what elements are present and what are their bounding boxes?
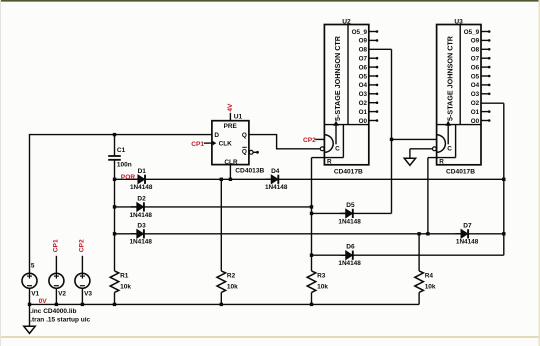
wire V2 bottom — [55, 288, 57, 304]
svg-text:R1: R1 — [120, 273, 129, 280]
U3 clock-enable bubble — [433, 147, 437, 151]
wire R2 vertical — [220, 179, 222, 271]
svg-text:O1: O1 — [359, 109, 368, 116]
junction at 503.8,233.8 — [502, 232, 505, 235]
svg-text:Q: Q — [242, 132, 247, 139]
svg-text:R2: R2 — [227, 273, 236, 280]
svg-text:D4: D4 — [271, 168, 280, 175]
U1 Qbar open end dot — [256, 151, 259, 154]
diode D5 1N4148 — [338, 202, 361, 225]
wire U3 O2 net vertical — [503, 103, 505, 255]
svg-text:O0: O0 — [359, 118, 368, 125]
svg-text:C1: C1 — [117, 147, 126, 154]
svg-text:R: R — [327, 159, 332, 166]
wire top rail to U1 D — [29, 134, 212, 136]
svg-text:CD4017B: CD4017B — [446, 168, 475, 175]
svg-text:1N4148: 1N4148 — [130, 239, 153, 246]
junction at 221.3,179.3 — [220, 178, 223, 181]
svg-text:1N4148: 1N4148 — [338, 218, 361, 225]
svg-text:O1: O1 — [471, 109, 480, 116]
wire U3 O2 pin — [481, 102, 504, 104]
junction at 311.5,206.9 — [310, 205, 313, 208]
svg-text:O9: O9 — [359, 38, 368, 45]
wire U1 Q to U2 clock-enable — [249, 135, 321, 149]
junction at 82.4,304.4 — [81, 303, 84, 306]
wire U2 R pin horizontal — [312, 157, 344, 159]
svg-text:R: R — [439, 159, 444, 166]
svg-text:10k: 10k — [317, 284, 328, 291]
svg-text:CLR: CLR — [224, 159, 238, 166]
net label CP1 at V2 — [52, 239, 59, 252]
junction at 230.4,179.3 — [229, 178, 232, 181]
svg-text:O2: O2 — [471, 100, 480, 107]
wire bottom rail — [30, 303, 420, 305]
svg-text:CD4013B: CD4013B — [235, 168, 264, 175]
junction at 427.9,233.8 — [426, 232, 429, 235]
svg-text:.inc CD4000.lib: .inc CD4000.lib — [30, 308, 76, 315]
junction at 114.5,134.6 — [113, 133, 116, 136]
svg-text:O4: O4 — [359, 82, 368, 89]
svg-text:0V: 0V — [39, 298, 48, 305]
svg-text:U2: U2 — [342, 18, 351, 25]
wire U3 clock-enable to ground — [410, 148, 433, 150]
svg-text:CP2: CP2 — [303, 137, 316, 144]
wire ground stub U3 — [409, 149, 411, 158]
wire U1 CLR stub — [229, 165, 231, 180]
op-amp substitute: D flip-flop U1 CD4013B — [212, 114, 265, 175]
wire U3 R pin horizontal — [428, 157, 456, 159]
wire U1 PRE stub — [229, 113, 231, 121]
svg-text:1N4148: 1N4148 — [130, 212, 153, 219]
svg-text:D6: D6 — [346, 244, 355, 251]
junction at 419.1,233.8 — [417, 232, 420, 235]
svg-text:Q: Q — [242, 149, 247, 156]
svg-text:1N4148: 1N4148 — [456, 239, 479, 246]
ground at V1 — [24, 326, 35, 333]
svg-text:O0: O0 — [471, 118, 480, 125]
svg-text:CP1: CP1 — [52, 239, 59, 252]
wire R2 bottom — [220, 292, 222, 304]
wire V1 bottom — [29, 288, 31, 304]
wire V3 bottom — [81, 288, 83, 304]
diode D7 1N4148 — [455, 222, 479, 245]
svg-text:1N4148: 1N4148 — [265, 184, 288, 191]
svg-text:5-STAGE JOHNSON CTR: 5-STAGE JOHNSON CTR — [335, 36, 342, 121]
wire CP2 label stub — [315, 138, 324, 140]
svg-text:CLK: CLK — [219, 141, 233, 148]
svg-text:O6: O6 — [471, 64, 480, 71]
svg-text:U1: U1 — [234, 114, 243, 121]
svg-text:V1: V1 — [31, 291, 39, 298]
junction at 114.5,179.3 — [113, 178, 116, 181]
svg-text:1N4148: 1N4148 — [130, 184, 153, 191]
diode D3 1N4148 — [130, 222, 153, 245]
svg-text:O8: O8 — [471, 47, 480, 54]
wire U3 R vertical — [427, 158, 429, 234]
wire O8 net to U3 clock — [392, 138, 437, 140]
svg-text:D1: D1 — [138, 168, 147, 175]
svg-text:D5: D5 — [346, 202, 355, 209]
wire ground drop — [29, 304, 31, 326]
U2 clock-enable bubble — [320, 147, 324, 151]
svg-text:O5: O5 — [359, 73, 368, 80]
svg-text:PRE: PRE — [224, 123, 238, 130]
wire R4 vertical — [418, 234, 420, 271]
svg-text:O7: O7 — [359, 56, 368, 63]
svg-text:D: D — [214, 132, 219, 139]
wire C1 top stub — [114, 135, 116, 156]
svg-text:O5: O5 — [471, 73, 480, 80]
diode D6 1N4148 — [338, 244, 361, 267]
svg-text:R4: R4 — [425, 273, 434, 280]
svg-text:C: C — [447, 145, 452, 152]
svg-text:CD4017B: CD4017B — [334, 168, 363, 175]
svg-text:10k: 10k — [227, 284, 238, 291]
counter U2 CD4017B — [324, 18, 378, 175]
wire R3 bottom — [311, 292, 313, 304]
junction at 114.5,206.9 — [113, 205, 116, 208]
svg-text:CP2: CP2 — [79, 239, 86, 252]
junction at 56.4,304.4 — [55, 303, 58, 306]
svg-text:CP1: CP1 — [191, 141, 204, 148]
svg-text:D7: D7 — [463, 222, 472, 229]
net label 4V at U1 PRE — [227, 103, 234, 112]
wire D6 row — [312, 254, 504, 256]
net label CP2 at V3 — [79, 239, 86, 252]
wire V2 top to CP1 label — [55, 256, 57, 273]
junction at 311.5,255.2 — [310, 254, 313, 257]
svg-text:10k: 10k — [120, 284, 131, 291]
resistor R4 10k — [415, 271, 436, 293]
wire U2 R to R3 vertical — [311, 158, 313, 271]
svg-text:O4: O4 — [471, 82, 480, 89]
resistor R3 10k — [307, 271, 328, 293]
svg-text:D2: D2 — [137, 195, 146, 202]
svg-text:POR: POR — [121, 174, 136, 181]
svg-text:O2: O2 — [359, 100, 368, 107]
svg-text:O9: O9 — [471, 38, 480, 45]
junction at 221.3,304.4 — [220, 303, 223, 306]
junction at 311.5,213.4 — [310, 212, 313, 215]
svg-text:O5_9: O5_9 — [464, 29, 480, 36]
svg-text:4V: 4V — [227, 103, 234, 112]
wire R1 bottom — [114, 292, 116, 304]
voltage source V1 5V — [22, 273, 40, 297]
svg-text:C: C — [335, 145, 340, 152]
svg-text:O6: O6 — [359, 64, 368, 71]
svg-text:5-STAGE JOHNSON CTR: 5-STAGE JOHNSON CTR — [447, 36, 454, 121]
wire D2 row — [115, 206, 312, 208]
diode D2 1N4148 — [130, 195, 153, 218]
svg-text:O3: O3 — [359, 91, 368, 98]
ground at U3 clock-enable — [404, 158, 415, 165]
svg-text:O5_9: O5_9 — [352, 29, 368, 36]
svg-text:U3: U3 — [454, 18, 463, 25]
voltage source V3 — [75, 273, 93, 297]
counter U3 CD4017B — [437, 18, 491, 175]
resistor R1 10k — [110, 271, 131, 293]
wire D5 row — [312, 212, 392, 214]
svg-text:100n: 100n — [117, 161, 132, 168]
wire V3 top to CP2 label — [81, 256, 83, 273]
svg-text:D3: D3 — [137, 222, 146, 229]
wire U2 O8 pin — [369, 48, 392, 50]
svg-text:V2: V2 — [58, 291, 66, 298]
junction at 114.5,304.4 — [113, 303, 116, 306]
svg-text:V3: V3 — [84, 291, 92, 298]
U1 Qbar bubble — [249, 150, 253, 154]
svg-text:O3: O3 — [471, 91, 480, 98]
svg-text:5: 5 — [31, 263, 35, 270]
svg-text:.tran .15 startup uic: .tran .15 startup uic — [30, 317, 90, 324]
wire U1 CLK stub — [204, 142, 212, 144]
wire left vertical V1 to top rail — [29, 135, 31, 274]
wire C1 bottom to R1 — [114, 161, 116, 271]
svg-text:R3: R3 — [317, 273, 326, 280]
U1 Qbar stub — [253, 151, 256, 153]
junction at 311.5,304.4 — [310, 303, 313, 306]
svg-text:O8: O8 — [359, 47, 368, 54]
junction at 29.5,304.4 — [28, 303, 31, 306]
diode D1 1N4148 — [130, 168, 153, 191]
wire U2 O8 net vertical — [391, 49, 393, 213]
junction at 503.8,179.3 — [502, 178, 505, 181]
voltage source V2 — [49, 273, 67, 297]
svg-text:1N4148: 1N4148 — [338, 260, 361, 267]
wire D3-D7 row — [115, 233, 504, 235]
junction at 391.5,139.4 — [390, 138, 393, 141]
resistor R2 10k — [217, 271, 238, 293]
svg-text:O7: O7 — [471, 56, 480, 63]
capacitor C1 100n — [108, 147, 132, 168]
junction at 114.5,233.8 — [113, 232, 116, 235]
wire R4 bottom — [418, 292, 420, 304]
svg-text:10k: 10k — [425, 284, 436, 291]
diode D4 1N4148 — [265, 168, 288, 191]
wire POR row C1 to U3 O2 net — [115, 178, 504, 180]
